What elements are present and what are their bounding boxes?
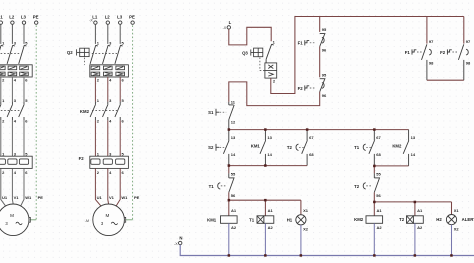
svg-text:KM2: KM2: [392, 144, 402, 149]
svg-text:55: 55: [376, 172, 381, 177]
circuit breaker Q1 pole 5: [19, 41, 29, 64]
svg-text:A2: A2: [417, 225, 423, 230]
node neutral rail / H1 X2: [300, 254, 303, 257]
svg-text:KM2: KM2: [80, 109, 90, 114]
wire F2 96 to stop button S1: [229, 82, 320, 106]
breaker Q1 trip unit body: [0, 65, 32, 77]
svg-text:T2: T2: [399, 217, 405, 222]
svg-text:68: 68: [376, 152, 381, 157]
wire H2 X2 to neutral rail: [451, 225, 453, 256]
svg-text:PE: PE: [134, 195, 140, 200]
svg-text:96: 96: [322, 93, 327, 98]
node bus / T1 contact: [373, 128, 376, 131]
svg-text:98: 98: [466, 61, 471, 66]
wire feeder to KM2 A1: [373, 202, 375, 216]
svg-text:56: 56: [231, 193, 236, 198]
svg-text:H1: H1: [287, 218, 293, 223]
breaker Q3 actuator: [251, 48, 263, 57]
breaker Q3 pole 1 contact: [266, 40, 276, 63]
svg-text:X2: X2: [454, 227, 460, 232]
wire branch 2 contactor to overload: [94, 120, 96, 156]
svg-text:14: 14: [231, 152, 236, 157]
svg-text:97: 97: [466, 39, 471, 44]
PE conductor (branch 1): [35, 25, 37, 219]
svg-text:98: 98: [429, 61, 434, 66]
breaker Q3 trip box (thermal+magnetic): [265, 63, 277, 78]
motor PE terminal lug (branch 1): [28, 217, 30, 222]
wire branch 1 phase drop to breaker: [23, 24, 25, 44]
motor PE terminal lug (branch 2): [123, 217, 125, 222]
svg-text:F2: F2: [79, 156, 85, 161]
svg-text:F1: F1: [405, 50, 411, 55]
overload contact F1 97/98 (NO, alarm): [422, 39, 435, 80]
wire KM1 A2 to neutral rail: [228, 223, 230, 255]
wire branch 1 overload to motor: [1, 168, 6, 206]
svg-text:M: M: [105, 213, 109, 218]
overload contact F2 95/96 (NC): [320, 72, 327, 91]
breaker Q1 mechanical linkage: [0, 52, 21, 54]
motor M 3~ (branch 1): [0, 204, 29, 236]
svg-text:ALERTA: ALERTA: [462, 217, 474, 222]
node branch join / T1 55: [228, 164, 231, 167]
terminal L2 (branch 1): [9, 14, 15, 24]
wire T2 A2 to neutral rail: [414, 223, 416, 255]
wire L terminal to Q3: [229, 27, 271, 45]
contactor linkage (branch 1): [0, 110, 21, 112]
contactor coil KM1 (A1/A2): [221, 208, 238, 230]
timer T2 contact actuator: [287, 144, 305, 150]
svg-text:67: 67: [309, 135, 314, 140]
wire branch 2 contactor to overload: [107, 120, 109, 156]
timer T2 contact 67/68 (timed NO): [302, 130, 315, 166]
svg-text:X1: X1: [303, 208, 309, 213]
svg-text:T1: T1: [249, 218, 255, 223]
svg-text:95: 95: [322, 27, 327, 32]
svg-text:T1: T1: [209, 184, 215, 189]
contactor linkage (branch 2): [92, 110, 117, 112]
breaker Q2 actuator: [77, 48, 90, 56]
svg-text:A1: A1: [377, 208, 383, 213]
circuit breaker Q2 pole 1: [90, 41, 100, 64]
svg-text:V1: V1: [109, 195, 115, 200]
svg-text:M: M: [10, 213, 14, 218]
overload relay F2 trip actuator (95/96): [298, 85, 315, 91]
wire branch 1 contactor to overload: [11, 120, 13, 156]
wire top rail to F2 97: [463, 17, 465, 44]
svg-text:97: 97: [429, 39, 434, 44]
svg-text:14: 14: [267, 152, 272, 157]
wire branch 2 phase drop to breaker: [119, 24, 121, 44]
svg-text:H2: H2: [436, 217, 442, 222]
svg-text:13: 13: [267, 135, 272, 140]
terminal PE (branch 2): [129, 14, 135, 24]
breaker Q3 trip linkage: [260, 58, 265, 71]
wire T1 A2 to neutral rail: [264, 223, 266, 255]
wire feeder to lamp H1: [300, 200, 302, 215]
terminal L2 (branch 2): [105, 14, 111, 24]
overload relay F2 trip actuator (97/98): [440, 49, 457, 55]
wire branch 2 overload to motor: [95, 168, 101, 206]
svg-text:N: N: [179, 236, 182, 241]
node branch join / KM1 aux 14: [264, 164, 267, 167]
wire branch 2 contactor to overload: [119, 120, 121, 156]
svg-text:A1: A1: [268, 208, 274, 213]
svg-text:PE: PE: [38, 195, 44, 200]
wire coil feeder (KM2 group): [374, 201, 451, 203]
contactor pole 1 (branch 2): [90, 98, 100, 121]
wire branch 1 phase drop to breaker: [0, 24, 2, 44]
PE conductor (branch 2): [132, 25, 134, 219]
node bus / S2: [228, 128, 231, 131]
svg-text:T2: T2: [354, 184, 360, 189]
svg-text:KM1: KM1: [251, 144, 261, 149]
svg-text:PE: PE: [33, 14, 39, 19]
svg-text:-X: -X: [174, 242, 178, 246]
svg-text:L3: L3: [117, 14, 123, 19]
svg-text:A1: A1: [417, 208, 423, 213]
timer T1 contact actuator (55/56): [209, 183, 227, 189]
start button S2 contact 13/14 (NO): [223, 130, 236, 166]
contactor coil KM2 (A1/A2): [366, 208, 383, 230]
wire T2 56 to coil feeder 2: [373, 192, 375, 202]
svg-text:-X: -X: [89, 19, 93, 23]
svg-text:W1: W1: [121, 195, 128, 200]
terminal L1 (branch 2): [92, 14, 98, 24]
overload relay F1 body: [0, 156, 32, 168]
contactor pole 5 (branch 2): [115, 98, 125, 121]
breaker Q2 trip unit body: [90, 65, 129, 77]
wire branch 1 contactor to overload: [23, 120, 25, 156]
wire Q3 output riser to top rail: [271, 17, 464, 94]
wire control bus (after S1): [229, 129, 409, 131]
contactor KM1 auxiliary contact 13/14 (NO): [260, 130, 273, 166]
svg-text:13: 13: [231, 135, 236, 140]
wire KM2 A2 to neutral rail: [373, 223, 375, 255]
wire to T1 55: [228, 166, 230, 174]
node bus / T2 contact: [306, 128, 309, 131]
svg-text:A1: A1: [231, 208, 237, 213]
svg-text:Q3: Q3: [242, 50, 248, 55]
wire branch 2 overload to motor: [116, 168, 120, 206]
svg-text:W1: W1: [25, 195, 32, 200]
overload relay F1 trip actuator (97/98): [405, 49, 422, 55]
timer coil T2 (A1/A2): [407, 208, 424, 230]
svg-text:V1: V1: [14, 195, 20, 200]
svg-text:U1: U1: [2, 195, 8, 200]
svg-text:L: L: [229, 20, 232, 25]
svg-text:56: 56: [376, 193, 381, 198]
svg-text:F1: F1: [298, 41, 304, 46]
stop button S1 actuator: [208, 109, 226, 116]
contactor pole 1 (branch 1): [0, 98, 5, 121]
wire feeder to lamp H2: [451, 202, 453, 215]
terminal L3 (branch 1): [21, 14, 27, 24]
wire branch 1 breaker to contactor: [0, 77, 2, 102]
wire H1 X2 to neutral rail: [300, 225, 302, 256]
svg-text:-M: -M: [85, 219, 89, 223]
node feeder 2 / KM2 coil: [373, 201, 376, 204]
wire T1 56 to coil feeder: [228, 192, 230, 200]
svg-text:T2: T2: [287, 145, 293, 150]
svg-text:55: 55: [231, 172, 236, 177]
overload contact F2 97/98 (NO, alarm): [458, 39, 471, 80]
wire branch 2 phase drop to breaker: [107, 24, 109, 44]
svg-text:67: 67: [376, 135, 381, 140]
wire branch 2 breaker to contactor: [107, 77, 109, 102]
wire to T2 55: [373, 166, 375, 174]
node neutral rail / T2 A2: [414, 254, 417, 257]
terminal PE (branch 1): [33, 14, 39, 24]
svg-text:KM2: KM2: [354, 217, 364, 222]
node neutral rail / KM2 A2: [373, 254, 376, 257]
neutral rail N: [180, 245, 474, 256]
svg-text:68: 68: [309, 152, 314, 157]
wire feeder to T2 A1: [414, 202, 416, 216]
overload relay F2 body: [90, 156, 129, 168]
svg-text:L3: L3: [21, 14, 27, 19]
wire parallel branch join (S2/KM1/T2): [229, 165, 307, 167]
contactor pole 3 (branch 2): [103, 98, 113, 121]
svg-text:L2: L2: [9, 14, 15, 19]
wire feeder to KM1 A1: [228, 200, 230, 216]
terminal L1 (branch 1): [0, 14, 3, 24]
alarm lamp H2: [446, 208, 459, 232]
svg-text:S1: S1: [208, 110, 214, 115]
svg-text:F2: F2: [440, 50, 446, 55]
wire branch 2 breaker to contactor: [119, 77, 121, 102]
circuit breaker Q2 pole 3: [103, 41, 113, 64]
breaker Q2 trip linkage: [83, 58, 85, 65]
svg-text:A2: A2: [268, 225, 274, 230]
svg-text:L2: L2: [105, 14, 111, 19]
svg-text:Q2: Q2: [67, 50, 73, 55]
wire branch 1 overload to motor: [11, 168, 14, 204]
svg-text:12: 12: [231, 119, 236, 124]
stop button S1 contact 11/12 (NC): [229, 100, 236, 130]
svg-text:S2: S2: [208, 145, 214, 150]
timer T1 contact actuator (67/68): [354, 144, 372, 150]
timer contact T1 55/56 (timed NC): [229, 172, 236, 198]
svg-text:F2: F2: [298, 86, 304, 91]
svg-text:14: 14: [411, 152, 416, 157]
timer T1 contact 67/68 (timed NO): [369, 130, 382, 166]
svg-text:95: 95: [322, 72, 327, 77]
terminal L3 (branch 2): [117, 14, 123, 24]
svg-text:X2: X2: [303, 227, 309, 232]
overload relay F1 trip actuator (95/96): [298, 40, 315, 46]
start button S2 actuator: [208, 144, 226, 151]
wire branch 1 breaker to contactor: [23, 77, 25, 102]
wire F1 96 to F2 95: [319, 47, 321, 78]
node feeder / KM1 coil: [228, 199, 231, 202]
indicator lamp H1: [296, 208, 309, 232]
svg-text:A2: A2: [377, 225, 383, 230]
wire branch 2 breaker to contactor: [94, 77, 96, 102]
wire branch 1 breaker to contactor: [11, 77, 13, 102]
circuit breaker Q1 pole 3: [7, 41, 17, 64]
svg-text:X1: X1: [454, 208, 460, 213]
terminal L (control phase): [227, 20, 231, 29]
wire branch 2 overload to motor: [107, 168, 110, 204]
node neutral rail / KM1 A2: [228, 254, 231, 257]
svg-text:U1: U1: [97, 195, 103, 200]
svg-text:KM1: KM1: [207, 218, 217, 223]
overload contact F1 95/96 (NC): [320, 27, 327, 46]
node feeder 2 / T2 coil: [414, 201, 417, 204]
node neutral rail / H2 X2: [450, 254, 453, 257]
contactor pole 3 (branch 1): [7, 98, 17, 121]
wire branch 2 phase drop to breaker: [94, 24, 96, 44]
contactor pole 5 (branch 1): [19, 98, 29, 121]
motor M 3~ (branch 2): [93, 204, 125, 236]
wire branch 1 contactor to overload: [0, 120, 2, 156]
breaker Q2 mechanical linkage: [92, 52, 117, 54]
wire alarm block bottom join: [427, 79, 464, 81]
wire coil feeder (KM1 group): [229, 199, 301, 201]
node bus / KM1 aux: [264, 128, 267, 131]
wire feeder to T1 A1: [264, 200, 266, 216]
svg-text:T1: T1: [354, 145, 360, 150]
wire parallel join (T1/KM2): [374, 165, 408, 167]
svg-text:13: 13: [411, 135, 416, 140]
circuit breaker Q1 pole 1: [0, 41, 5, 64]
wire branch 1 overload to motor: [21, 168, 25, 206]
terminal N (neutral): [179, 236, 183, 245]
node neutral rail / T1 A2: [264, 254, 267, 257]
timer T2 contact actuator (55/56): [354, 183, 372, 189]
svg-text:A2: A2: [231, 225, 237, 230]
node branch join 2 / T2 55: [373, 165, 376, 168]
node feeder / T1 coil: [264, 199, 267, 202]
svg-text:96: 96: [322, 48, 327, 53]
timer coil T1 (A1/A2): [257, 208, 274, 230]
wire top rail to F1 97: [426, 17, 428, 44]
circuit breaker Q2 pole 5: [115, 41, 125, 64]
wire branch 1 phase drop to breaker: [11, 24, 13, 44]
svg-text:L1: L1: [92, 14, 98, 19]
svg-text:PE: PE: [129, 14, 135, 19]
svg-text:-X: -X: [223, 26, 227, 30]
wire top rail to F1 95: [319, 17, 321, 32]
timer contact T2 55/56 (timed NC): [374, 172, 381, 198]
contactor KM2 auxiliary contact 13/14 (NO): [403, 130, 416, 166]
